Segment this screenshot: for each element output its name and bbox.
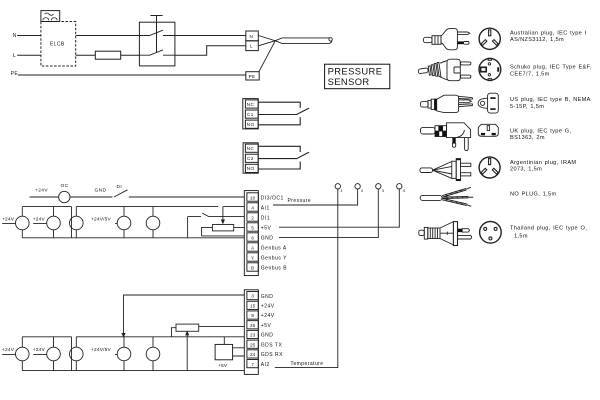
svg-text:PE: PE xyxy=(11,71,19,77)
svg-text:Genbus B: Genbus B xyxy=(261,265,287,271)
svg-text:Genbus A: Genbus A xyxy=(261,245,287,251)
svg-text:3: 3 xyxy=(251,294,254,299)
svg-text:C2: C2 xyxy=(247,156,254,161)
svg-text:Genbus Y: Genbus Y xyxy=(261,255,287,261)
svg-text:Argentinian plug, IRAM: Argentinian plug, IRAM xyxy=(510,160,576,166)
svg-text:+24V: +24V xyxy=(261,304,275,310)
svg-text:ELCB: ELCB xyxy=(50,41,65,47)
svg-text:4: 4 xyxy=(251,205,254,210)
svg-text:Temperature: Temperature xyxy=(291,361,324,367)
svg-text:UK plug, IEC type G,: UK plug, IEC type G, xyxy=(510,128,571,134)
svg-text:SENSOR: SENSOR xyxy=(328,76,370,87)
svg-text:L: L xyxy=(250,44,253,49)
svg-text:N: N xyxy=(13,33,17,39)
svg-text:Australian plug, IEC type I: Australian plug, IEC type I xyxy=(510,31,587,37)
svg-text:5-15P, 1,5m: 5-15P, 1,5m xyxy=(510,104,544,110)
svg-text:US plug, IEC type B, NEMA: US plug, IEC type B, NEMA xyxy=(510,97,591,103)
svg-text:DI: DI xyxy=(117,184,123,190)
svg-text:GND: GND xyxy=(261,294,274,300)
svg-text:15: 15 xyxy=(250,303,256,308)
svg-text:+5V: +5V xyxy=(261,225,272,231)
svg-text:AS/NZS3112, 1,5m: AS/NZS3112, 1,5m xyxy=(510,37,564,43)
svg-text:OC: OC xyxy=(61,183,69,189)
svg-text:2073, 1,5m: 2073, 1,5m xyxy=(510,166,542,172)
svg-text:Y: Y xyxy=(251,255,254,260)
svg-text:6: 6 xyxy=(251,235,254,240)
svg-text:1,5m: 1,5m xyxy=(514,234,528,240)
svg-text:+5V: +5V xyxy=(261,323,272,329)
svg-text:7: 7 xyxy=(251,362,254,367)
svg-text:+24V/5V: +24V/5V xyxy=(91,217,112,223)
svg-text:C1: C1 xyxy=(247,112,254,117)
svg-text:NO PLUG, 1,5m: NO PLUG, 1,5m xyxy=(510,192,556,198)
svg-text:AI1: AI1 xyxy=(261,205,270,211)
svg-text:NO: NO xyxy=(247,166,255,171)
svg-text:GND: GND xyxy=(95,188,107,194)
svg-text:2: 2 xyxy=(251,215,254,220)
svg-text:NC: NC xyxy=(247,102,255,107)
svg-text:BS1363, 2m: BS1363, 2m xyxy=(510,135,545,141)
svg-text:Thailand plug, IEC type O,: Thailand plug, IEC type O, xyxy=(510,225,587,231)
svg-text:3: 3 xyxy=(382,188,385,193)
svg-text:4: 4 xyxy=(403,188,406,193)
svg-text:+24V/5V: +24V/5V xyxy=(91,347,112,353)
svg-text:26: 26 xyxy=(250,323,256,328)
svg-text:+24V: +24V xyxy=(33,347,46,353)
svg-text:GDS RX: GDS RX xyxy=(261,352,283,358)
svg-text:L: L xyxy=(13,53,16,59)
svg-text:DI1: DI1 xyxy=(261,215,270,221)
svg-text:25: 25 xyxy=(250,342,256,347)
svg-text:A: A xyxy=(251,245,255,250)
svg-text:10: 10 xyxy=(250,195,256,200)
svg-text:CEE7/7, 1,5m: CEE7/7, 1,5m xyxy=(510,71,550,77)
svg-text:+5V: +5V xyxy=(218,363,228,369)
svg-text:PRESSURE: PRESSURE xyxy=(328,65,383,76)
svg-text:1: 1 xyxy=(341,188,344,193)
svg-text:B: B xyxy=(251,265,254,270)
svg-text:+24V: +24V xyxy=(2,347,15,353)
svg-text:AI2: AI2 xyxy=(261,362,270,368)
svg-text:GND: GND xyxy=(261,235,274,241)
svg-text:+24V: +24V xyxy=(2,217,15,223)
svg-text:Schuko plug, IEC Type E&F,: Schuko plug, IEC Type E&F, xyxy=(510,64,592,70)
svg-text:8: 8 xyxy=(251,313,254,318)
svg-text:+24V: +24V xyxy=(261,313,275,319)
svg-text:Pressure: Pressure xyxy=(288,198,312,204)
svg-text:GDS TX: GDS TX xyxy=(261,343,283,349)
svg-text:N: N xyxy=(250,34,254,39)
svg-text:+24V: +24V xyxy=(35,188,48,194)
svg-text:2: 2 xyxy=(361,188,364,193)
svg-text:5: 5 xyxy=(251,225,254,230)
svg-text:DI3/OC1: DI3/OC1 xyxy=(261,195,284,201)
svg-text:+24V: +24V xyxy=(33,217,46,223)
svg-text:NC: NC xyxy=(247,146,255,151)
svg-text:24: 24 xyxy=(250,352,256,357)
svg-text:PE: PE xyxy=(249,74,256,79)
svg-text:NO: NO xyxy=(247,122,255,127)
svg-text:23: 23 xyxy=(250,333,256,338)
svg-text:GND: GND xyxy=(261,333,274,339)
